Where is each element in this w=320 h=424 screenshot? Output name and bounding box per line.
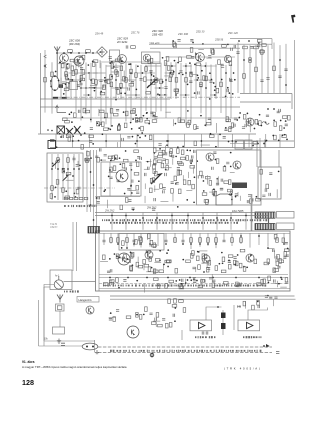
wire string xyxy=(182,233,184,245)
resistor R327 xyxy=(169,322,172,327)
transistor Q11 xyxy=(118,253,130,265)
junction J46 xyxy=(157,93,159,95)
junction J180 xyxy=(72,135,74,137)
svg-text:(TRK 4005/A): (TRK 4005/A) xyxy=(224,366,262,370)
wire right outer edge xyxy=(294,40,296,148)
junction J209 xyxy=(63,170,65,172)
junction J358 xyxy=(136,314,138,316)
wire tick xyxy=(248,134,250,148)
wire xyxy=(153,152,155,160)
wire tick xyxy=(72,134,74,148)
capacitor C57 xyxy=(208,118,211,120)
junction J257 xyxy=(257,143,259,145)
resistor R314 xyxy=(261,279,264,284)
resistor R97 xyxy=(118,125,121,130)
resistor R46 xyxy=(117,90,120,95)
capacitor C97 xyxy=(144,173,146,176)
capacitor C140 xyxy=(107,271,110,273)
capacitor C111 xyxy=(220,188,223,190)
junction J33 xyxy=(243,59,245,61)
junction J117 xyxy=(273,119,275,121)
wire tick xyxy=(265,134,267,148)
resistor R136 xyxy=(209,135,214,138)
wire bus tap xyxy=(171,213,173,230)
junction J189 xyxy=(59,133,61,135)
junction J140 xyxy=(47,129,49,131)
junction J151 xyxy=(104,117,106,119)
junction J58 xyxy=(229,92,231,94)
resistor R150 xyxy=(64,197,68,199)
junction J292 xyxy=(182,243,184,245)
resistor R294 xyxy=(153,270,158,273)
wire arrow up xyxy=(56,106,67,113)
resistor R123 xyxy=(152,120,157,123)
junction J221 xyxy=(90,204,92,206)
resistor R49 xyxy=(144,77,147,82)
junction J226 xyxy=(119,157,121,159)
resistor R50 xyxy=(129,83,134,86)
resistor R178 xyxy=(153,160,156,165)
junction J183 xyxy=(177,146,179,148)
capacitor C126 xyxy=(286,255,289,257)
wire string xyxy=(261,42,263,93)
resistor R93 xyxy=(187,123,190,128)
wire rail drop xyxy=(271,44,273,49)
junction J306 xyxy=(159,250,161,252)
svg-text:mag.fej: mag.fej xyxy=(50,224,58,226)
junction J105 xyxy=(59,62,61,64)
capacitor C104 xyxy=(98,196,100,199)
wire string xyxy=(110,233,112,244)
wire xyxy=(244,302,246,309)
junction J264 xyxy=(229,194,231,196)
IF can L2 xyxy=(70,82,78,90)
junction J276 xyxy=(111,215,113,217)
capacitor C160 xyxy=(274,297,277,299)
junction J78 xyxy=(150,79,152,81)
resistor R299 xyxy=(263,279,266,284)
wire string xyxy=(67,154,69,200)
junction J139 xyxy=(60,136,62,138)
junction J192 xyxy=(228,141,230,143)
junction J152 xyxy=(187,110,189,112)
capacitor C114 xyxy=(221,179,223,182)
wire speaker bus xyxy=(110,295,295,297)
capacitor C69 xyxy=(72,158,75,160)
resistor R258 xyxy=(192,251,195,256)
capacitor C105 xyxy=(154,198,156,201)
wire xyxy=(184,279,186,286)
capacitor C62 xyxy=(62,135,64,138)
junction J179 xyxy=(215,146,217,148)
svg-text:91. ábra: 91. ábra xyxy=(22,360,35,364)
junction J80 xyxy=(159,87,161,89)
junction J162 xyxy=(146,112,148,114)
resistor R163 xyxy=(170,149,173,154)
transistor Q12 xyxy=(145,251,153,259)
capacitor C80 xyxy=(104,154,107,156)
svg-text:849: 849 xyxy=(237,306,242,309)
wire xyxy=(275,256,277,263)
junction J54 xyxy=(189,62,191,64)
junction J11 xyxy=(192,42,194,44)
wire link xyxy=(199,65,216,67)
resistor R16 xyxy=(110,75,113,80)
wire link xyxy=(210,94,216,96)
resistor R290 xyxy=(204,254,207,259)
svg-text:(RF 264): (RF 264) xyxy=(69,42,80,46)
wire bus tap xyxy=(202,213,204,230)
junction J42 xyxy=(128,63,130,65)
junction J29 xyxy=(190,72,192,74)
junction J43 xyxy=(113,66,115,68)
capacitor C70 xyxy=(77,187,80,189)
capacitor C83 xyxy=(125,167,127,170)
wire rail RL2 xyxy=(50,140,294,142)
rail end tick xyxy=(276,351,279,353)
wire link xyxy=(116,87,128,89)
junction J204 xyxy=(72,175,74,177)
wire bus drop xyxy=(291,94,293,110)
capacitor C60 xyxy=(246,121,249,123)
resistor R285 xyxy=(130,254,133,259)
wire string xyxy=(190,64,192,123)
wire bottom dashed rail B xyxy=(98,352,272,354)
wire string xyxy=(44,64,46,113)
wire xyxy=(106,200,108,208)
resistor R195 xyxy=(150,188,153,193)
junction J62 xyxy=(195,53,197,55)
transistor Q7 xyxy=(246,118,254,126)
junction J248 xyxy=(165,169,167,171)
capacitor C151 xyxy=(123,280,126,282)
wire link xyxy=(145,65,161,67)
resistor R268 xyxy=(126,260,131,263)
resistor R152 xyxy=(74,197,78,199)
wire bus tap xyxy=(245,213,247,230)
junction J141 xyxy=(51,130,53,132)
resistor R322 xyxy=(243,301,246,306)
wire string xyxy=(237,43,239,93)
junction J335 xyxy=(212,277,214,279)
capacitor C110 xyxy=(220,188,223,190)
junction J122 xyxy=(236,119,238,121)
junction J297 xyxy=(240,235,242,237)
junction J84 xyxy=(159,94,161,96)
resistor R41 xyxy=(107,79,110,84)
junction J120 xyxy=(96,122,98,124)
junction J268 xyxy=(224,165,226,167)
capacitor C142 xyxy=(181,284,184,286)
resistor R235 xyxy=(215,238,218,243)
resistor R23 xyxy=(160,79,163,84)
wire string xyxy=(65,64,67,99)
wire xyxy=(230,172,235,174)
transistor Q5 xyxy=(196,53,205,62)
resistor R8 xyxy=(257,39,262,42)
wire string xyxy=(283,233,285,243)
wire xyxy=(164,167,172,169)
wire xyxy=(117,257,125,259)
resistor R80 xyxy=(80,78,85,81)
junction J218 xyxy=(90,171,92,173)
junction J252 xyxy=(177,206,179,208)
junction J349 xyxy=(193,278,195,280)
wire string xyxy=(180,63,182,123)
junction J290 xyxy=(149,243,151,245)
resistor R181 xyxy=(188,180,191,185)
resistor R220 xyxy=(266,184,269,189)
antenna ANT1 xyxy=(54,47,60,79)
resistor R209 xyxy=(216,159,219,164)
wire string xyxy=(157,233,159,246)
junction J90 xyxy=(177,62,179,64)
capacitor C75 xyxy=(140,157,142,160)
resistor R61 xyxy=(167,66,170,71)
junction J265 xyxy=(215,159,217,161)
capacitor C46 xyxy=(234,124,236,127)
component value labels row xyxy=(102,219,267,221)
wire bus B3 xyxy=(240,93,292,95)
capacitor C41 xyxy=(80,68,83,70)
junction J261 xyxy=(231,193,233,195)
resistor R21 xyxy=(135,73,138,78)
capacitor C11 xyxy=(104,81,107,83)
wire bundle xyxy=(86,150,88,212)
mixer diode ring D1 xyxy=(97,47,108,57)
resistor R257 xyxy=(144,264,149,267)
wire xyxy=(144,196,146,203)
capacitor C109 xyxy=(213,152,216,154)
junction J89 xyxy=(68,78,70,80)
junction J107 xyxy=(65,83,67,85)
resistor R128 xyxy=(226,119,231,122)
resistor R32 xyxy=(255,67,258,72)
capacitor C146 xyxy=(209,277,212,279)
resistor R296 xyxy=(155,259,160,262)
resistor R105 xyxy=(259,121,262,126)
capacitor C37 xyxy=(191,56,194,58)
junction J86 xyxy=(67,63,69,65)
resistor R323 xyxy=(113,317,116,322)
component value labels row xyxy=(110,222,238,224)
junction J198 xyxy=(210,133,212,135)
wire string xyxy=(140,233,142,247)
wire pair xyxy=(72,222,74,271)
resistor R4 xyxy=(254,46,259,49)
wire xyxy=(173,119,175,126)
capacitor C100 xyxy=(131,208,134,210)
wire left drop xyxy=(43,287,45,341)
op-amp U3 xyxy=(247,322,253,328)
resistor R1 xyxy=(68,50,73,53)
tape amplifier board box xyxy=(96,231,291,291)
wire xyxy=(274,250,276,258)
junction J169 xyxy=(167,140,169,142)
capacitor C7 xyxy=(250,47,253,49)
trimmer box xyxy=(50,270,72,290)
wire left inner xyxy=(43,287,45,346)
junction J136 xyxy=(67,130,69,132)
microphone box MIC1 xyxy=(53,327,65,334)
resistor R101 xyxy=(124,123,127,128)
wire tick xyxy=(136,134,138,148)
junction J127 xyxy=(98,125,100,127)
resistor R69 xyxy=(187,56,192,59)
resistor R74 xyxy=(72,71,75,76)
capacitor C29 xyxy=(220,64,223,66)
wire xyxy=(154,185,156,192)
wire xyxy=(109,317,116,319)
wire tick xyxy=(184,134,186,148)
capacitor C47 xyxy=(154,117,157,119)
resistor R251 xyxy=(228,255,233,258)
junction J108 xyxy=(227,87,229,89)
resistor R218 xyxy=(250,199,253,204)
rectifier box xyxy=(258,167,281,199)
wire xyxy=(201,262,210,264)
resistor R3 xyxy=(243,46,248,49)
junction J255 xyxy=(186,199,188,201)
resistor R76 xyxy=(82,70,85,75)
junction J92 xyxy=(182,74,184,76)
IC module U1 xyxy=(232,183,247,189)
resistor R180 xyxy=(150,178,153,183)
wire tick xyxy=(217,134,219,148)
junction J82 xyxy=(185,94,187,96)
resistor R312 xyxy=(198,285,203,288)
transistor Q3 xyxy=(118,55,127,64)
junction J199 xyxy=(145,135,147,137)
junction J16 xyxy=(80,87,82,89)
capacitor C152 xyxy=(108,283,110,286)
resistor R172 xyxy=(177,149,180,154)
capacitor C101 xyxy=(97,201,100,203)
capacitor C54 xyxy=(266,115,269,117)
wire xyxy=(218,176,220,184)
junction J31 xyxy=(225,72,227,74)
wire bus tap xyxy=(142,213,144,230)
resistor R310 xyxy=(109,280,114,283)
capacitor C42 xyxy=(79,56,82,58)
junction J227 xyxy=(110,160,112,162)
junction J59 xyxy=(214,89,216,91)
pilot lamp LA1 xyxy=(82,343,98,350)
resistor R259 xyxy=(235,261,238,266)
junction J266 xyxy=(230,152,232,154)
wire link xyxy=(80,87,94,89)
junction J345 xyxy=(179,279,181,281)
wire op-amp2 feed xyxy=(248,308,268,321)
wire tick xyxy=(279,134,281,148)
wire top rail xyxy=(57,52,100,54)
junction J262 xyxy=(231,199,233,201)
resistor R265 xyxy=(222,257,225,262)
resistor R236 xyxy=(231,238,234,243)
junction J79 xyxy=(94,87,96,89)
shield bus vertical xyxy=(251,194,253,231)
resistor R51 xyxy=(174,43,177,48)
capacitor C6 xyxy=(234,45,236,48)
resistor R124 xyxy=(65,120,70,123)
wire link xyxy=(137,72,155,74)
junction J123 xyxy=(123,111,125,113)
resistor R227 xyxy=(110,238,113,243)
junction J32 xyxy=(230,79,232,81)
junction J146 xyxy=(90,119,92,121)
resistor R238 xyxy=(276,238,279,243)
wire xyxy=(154,188,160,190)
junction J293 xyxy=(190,243,192,245)
capacitor C17 xyxy=(229,80,232,82)
junction J313 xyxy=(114,253,116,255)
svg-text:128: 128 xyxy=(22,378,34,387)
wire xyxy=(200,279,202,285)
resistor R111 xyxy=(180,120,185,123)
junction J124 xyxy=(285,120,287,122)
resistor R158 xyxy=(166,159,169,164)
wire xyxy=(206,175,208,184)
junction J150 xyxy=(69,113,71,115)
resistor R300 xyxy=(268,276,271,281)
wire AGC dash-dot line xyxy=(58,96,240,98)
junction J295 xyxy=(207,243,209,245)
resistor R263 xyxy=(240,249,245,252)
junction J87 xyxy=(55,71,57,73)
junction J354 xyxy=(110,312,112,314)
resistor R60 xyxy=(166,57,169,62)
wire link xyxy=(155,87,164,89)
capacitor C84 xyxy=(127,188,130,190)
junction J229 xyxy=(135,160,137,162)
resistor R37 xyxy=(145,67,148,72)
resistor R2 xyxy=(86,50,91,53)
resistor R33 xyxy=(273,66,276,71)
capacitor C157 xyxy=(203,279,205,282)
junction J126 xyxy=(143,115,145,117)
junction J97 xyxy=(201,70,203,72)
resistor R112 xyxy=(282,116,287,119)
wire xyxy=(237,192,239,197)
capacitor C31 xyxy=(221,66,224,68)
resistor R108 xyxy=(101,122,104,127)
capacitor C13 xyxy=(149,70,152,72)
resistor R201 xyxy=(85,158,90,161)
resistor R103 xyxy=(279,126,282,131)
junction J216 xyxy=(78,168,80,170)
wire link xyxy=(183,65,192,67)
wire lamp feed xyxy=(39,345,83,347)
resistor R222 xyxy=(284,249,289,252)
wire tick xyxy=(153,134,155,148)
resistor R245 xyxy=(139,236,142,241)
resistor R301 xyxy=(169,280,174,283)
wire string xyxy=(267,45,269,93)
junction J130 xyxy=(247,113,249,115)
wire xyxy=(153,320,160,322)
capacitor C15 xyxy=(179,71,182,73)
resistor R98 xyxy=(74,113,77,118)
transistor Q15 xyxy=(86,306,94,314)
capacitor C93 xyxy=(189,160,192,162)
junction J234 xyxy=(108,175,110,177)
wire xyxy=(165,146,167,154)
resistor R99 xyxy=(99,110,104,113)
resistor R179 xyxy=(161,163,164,168)
capacitor C129 xyxy=(102,240,105,242)
resistor R169 xyxy=(134,173,139,176)
wire xyxy=(77,161,79,167)
